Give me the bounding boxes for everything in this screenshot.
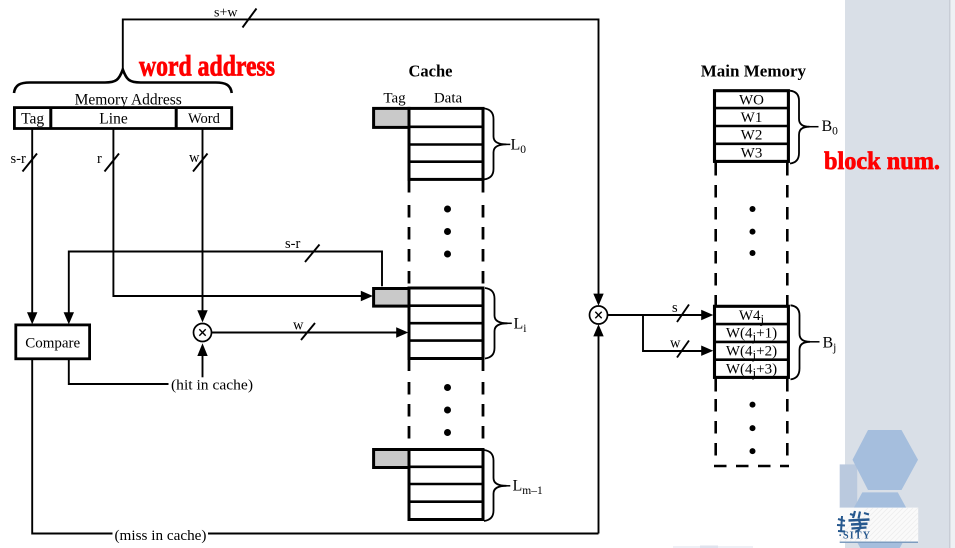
svg-text:W1: W1 [741, 110, 763, 126]
svg-text:s-r: s-r [11, 151, 26, 167]
svg-text:s: s [672, 300, 678, 316]
svg-text:Data: Data [434, 91, 463, 107]
svg-text:w: w [293, 318, 304, 334]
svg-text:·SITY: ·SITY [839, 531, 872, 542]
svg-text:Lm–1: Lm–1 [513, 478, 543, 498]
svg-text:Main Memory: Main Memory [701, 62, 807, 81]
svg-text:word address: word address [139, 50, 275, 83]
svg-text:Memory Address: Memory Address [75, 92, 182, 109]
svg-text:B0: B0 [822, 118, 839, 138]
svg-text:Tag: Tag [383, 91, 406, 107]
svg-text:Tag: Tag [21, 111, 44, 128]
svg-text:(hit in cache): (hit in cache) [171, 378, 253, 394]
svg-text:Word: Word [188, 111, 221, 127]
svg-text:W2: W2 [741, 128, 763, 144]
svg-text:Cache: Cache [409, 62, 453, 81]
svg-text:L0: L0 [511, 137, 527, 157]
svg-text:s+w: s+w [214, 6, 238, 21]
svg-text:(miss in cache): (miss in cache) [115, 528, 207, 544]
svg-text:Compare: Compare [25, 336, 80, 352]
svg-text:W3: W3 [741, 145, 763, 161]
svg-text:block num.: block num. [824, 148, 940, 175]
svg-text:W(4j+1): W(4j+1) [726, 326, 777, 345]
svg-text:Line: Line [99, 111, 128, 128]
svg-text:s-r: s-r [285, 236, 300, 252]
svg-text:WO: WO [739, 92, 764, 108]
svg-text:W(4j+3): W(4j+3) [726, 361, 777, 380]
svg-text:Li: Li [514, 316, 527, 336]
svg-text:W4j: W4j [739, 308, 764, 327]
svg-text:w: w [189, 150, 200, 166]
svg-text:w: w [670, 336, 681, 352]
svg-text:r: r [97, 151, 102, 167]
svg-text:Bj: Bj [823, 335, 837, 355]
svg-text:W(4j+2): W(4j+2) [726, 344, 777, 363]
